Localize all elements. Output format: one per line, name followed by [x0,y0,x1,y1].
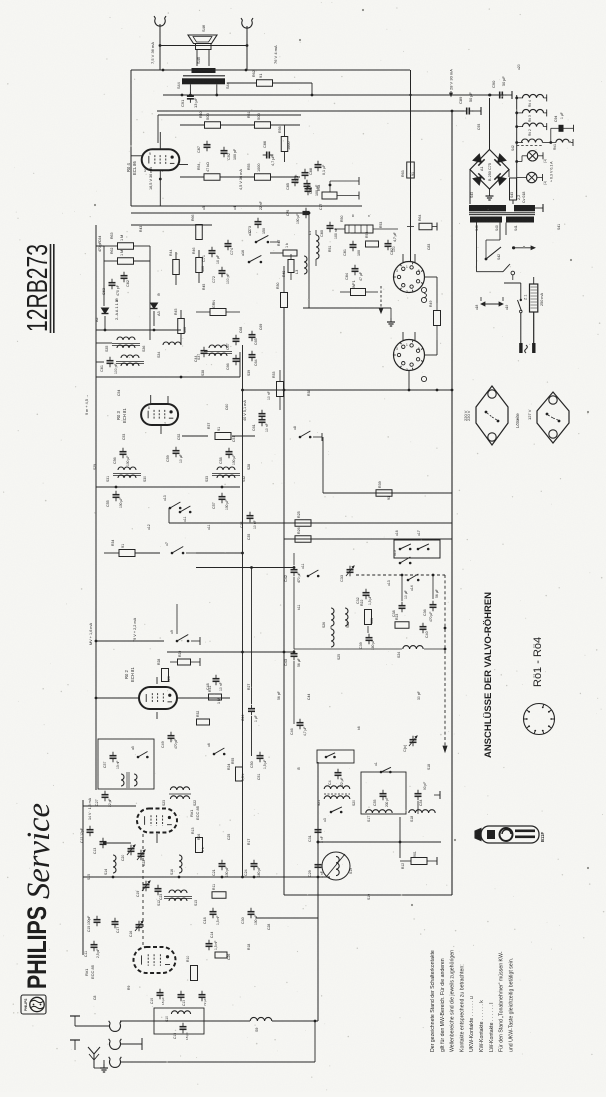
capacitor C34b 90pF [415,793,422,795]
coil S26 [331,608,334,626]
coil L3 [304,256,307,274]
capacitor C36 56uF [430,604,437,606]
dial lamp tube drawing [481,826,539,843]
wire v410 socket feed [410,70,412,262]
wire v284 [283,266,285,292]
osc box outline [451,578,453,895]
trimmer C33 [347,569,354,571]
coil S28 [345,608,348,626]
resistor R37 [182,435,208,437]
capacitor C83 100uF [304,183,311,185]
tape keys box [394,540,440,558]
resistor R26 [295,536,311,543]
coil L1 [316,235,319,259]
wire v318 [317,762,319,1021]
output transformer S44 [183,75,225,77]
resistor R25 [295,520,311,527]
resistor R40 [180,124,204,126]
resistor R66 [196,225,203,240]
wire v368 [367,626,369,633]
dots x445 [444,648,447,651]
capacitor C41 22uF [335,772,342,774]
wires ECH81#2 [95,553,97,790]
tube socket diagram Roe1-Roe4 [524,704,555,735]
resistor R29 [178,659,191,665]
capacitor C60b [259,413,266,415]
capacitor C86 4.7uF [266,152,268,159]
ground antenna [103,1064,105,1068]
capacitor C50 1.5uF [257,755,264,757]
resistor R55 [271,176,300,178]
switch u3 [330,811,333,814]
tube U1a ECC85 [137,809,177,833]
voltage selector lever [486,247,501,259]
bridge rectifier B250C75 [470,150,509,190]
wire y308 [303,307,391,309]
capacitor C15b 18pF [180,1026,187,1028]
tube U2 ECH81 [139,687,177,709]
coil S34v [331,629,334,647]
wire antenna top [120,1020,250,1022]
capacitor C43 56uF [291,653,298,655]
coil group S37 [209,345,227,348]
junction dot bus [488,94,491,97]
wire left rail x96 [95,225,97,553]
box WF1 [351,289,366,296]
resistor R5x [236,767,243,781]
resistor R62 [227,82,256,84]
FM box left rail [82,800,84,955]
antenna terminal 2 [109,1041,120,1049]
socket wires [424,276,437,278]
capacitor C94 1uF [551,127,559,129]
wire rail x150 [149,246,151,340]
IF transformer second [121,355,139,358]
resistor R50 block [345,225,373,233]
resistor R63 [407,162,415,178]
transformer S12 S13 [169,890,187,893]
capacitor C38 10uF [399,605,406,607]
dashed tuning line [356,574,445,576]
heater winding chain rail [516,95,518,198]
capacitor C23 [155,888,162,890]
capacitor C31 3nF [315,829,322,831]
capacitor C71 [209,250,216,252]
capacitor C82 [385,243,392,245]
wires IF left [96,245,104,247]
resistor R41 [271,124,300,126]
mains plug [519,343,522,353]
wire bus y95 [163,94,504,96]
capacitor C97 100uF [303,211,310,213]
coil S24 [403,646,423,649]
coil S10 [171,1011,190,1014]
diode A3 AA113 [151,303,158,309]
pilot lamp 1 [517,161,522,163]
trimmer C20 [128,848,135,850]
trimmer C22 [138,853,145,855]
resistor R43 [104,245,117,247]
wire y652 [167,651,294,653]
capacitor C56 100uF [120,451,127,453]
capacitor C15 100pF [94,919,101,921]
wire bus y109 [157,110,464,112]
capacitor C62 [121,275,128,277]
resistor R49 [434,311,441,326]
resistor R28 [162,669,169,682]
tube U1b ECC85 [134,947,176,973]
socket BU2 [394,340,425,371]
capacitor C12 12pF [87,829,94,831]
capacitor C59 10uF [173,450,180,452]
diode A2 AA113 [102,308,109,314]
capacitor C88 [315,164,322,166]
osc block box [361,772,406,814]
resistor R46 [196,258,203,273]
socket BU1 tail [421,287,426,292]
rail A x242.5 [242,345,244,877]
capacitor C32 [363,592,370,594]
wire v104 [103,246,105,306]
wire y523 bus [169,522,452,524]
capacitor C39 [366,637,373,639]
fuse Z1 250mA [530,284,538,312]
speaker LS [160,45,247,47]
wire y493 bus [323,492,452,494]
dipole stub 2 [70,1039,80,1041]
resistor R31 [209,694,222,700]
capacitor C91 13uF [187,95,194,97]
heater winding Roe3 [517,112,523,114]
switch u6 [213,753,216,756]
resistor R54 [180,176,204,178]
capacitor C57 100uF [219,496,226,498]
capacitor C11 2.5pF [91,944,98,946]
resistor R47 [270,252,283,254]
socket BU2 tail circle [421,376,426,381]
heater winding Roe4 [517,97,523,99]
capacitor C84 47uF [352,268,359,270]
primary winding S40 S41 [476,223,478,272]
caps row under ECC85 [157,992,164,994]
switch u15 [399,562,402,565]
capacitor C73 150 [255,221,262,223]
dashed arrow [380,286,382,310]
wire y246 stub [96,245,104,247]
trimmer Cx [410,739,417,741]
wire y539 bus [284,538,452,540]
wire y553 [196,552,243,554]
resistor R58 [322,192,337,199]
dipole stub 1 [70,1015,80,1017]
IF transformer S35 S36 [117,337,135,340]
capacitor C55 [113,494,120,496]
capacitor C80 100nF [327,225,334,227]
resistor R14 [215,952,227,958]
wire v240 [239,352,241,377]
power transformer core [469,205,506,211]
FM sub box [98,739,154,789]
resistor R34 and switch u7 [104,552,119,554]
resistor R13 [196,838,203,853]
coil S16 [179,855,182,873]
capacitor C29 1nF [315,864,322,866]
capacitor C74 [225,243,232,245]
rail B x251.5 [251,568,253,705]
heater winding S42 [517,142,523,144]
resistor R44 [173,260,180,275]
capacitor C58 100uF [226,451,233,453]
capacitor C63 470pF [109,282,116,284]
capacitor C46 [297,722,304,724]
wire y261 stub [134,260,150,262]
pilot lamp 2 [517,177,527,179]
capacitor C42a [107,360,114,362]
resistor R10 [191,966,198,981]
mains cord [520,313,522,343]
switch u14 [407,579,410,582]
capacitors column C67 C65 [233,338,240,340]
coil S22 S23 [170,787,189,790]
capacitor C24 160pF [251,863,258,865]
wire y877 [83,876,330,878]
wire top bus y70 [131,69,410,71]
end tick right [434,794,440,796]
wire y330 [96,329,181,331]
resistor 2.2 Cv018 [510,178,517,200]
capacitor C90 50uF [499,92,501,99]
wire y918 [256,917,318,919]
input box [154,1008,204,1034]
wire antenna bottom [120,1061,315,1063]
amp stage box lines [158,114,301,116]
resistor R48 [288,260,294,273]
capacitor C96 [305,188,312,190]
tube U3 ECH81 [141,404,178,425]
heater winding Roe2 [517,126,523,128]
selector plate 127V [537,392,569,443]
capacitor C42 470uF [291,569,298,571]
capacitor C34 10nF [247,515,254,517]
mains arrows [481,303,503,305]
resistor R21 [411,858,427,865]
switch u8 [299,436,302,439]
capacitor C37 10nF [110,755,117,757]
switch u1 [380,771,383,774]
switch u16a [248,261,251,264]
wire v323 [322,437,324,493]
trimmer C16 [136,924,143,926]
coils S21 S20 [324,786,350,789]
capacitor C89 50uF [466,108,468,115]
resistor R56 [281,137,288,152]
resistor R39 [376,490,392,497]
heater coil Roe1 [556,139,569,142]
switch u13 [169,507,172,510]
resistor R33v [277,382,284,397]
wire x294 lower [293,661,295,724]
switch u11a [179,511,182,514]
FM osc coil S19 [322,852,350,880]
capacitor C17 [112,921,119,923]
switch u12 [255,241,258,244]
wire band area [293,553,295,565]
bar S45 [192,68,216,73]
IF transformer S31 S30 [118,467,136,470]
coil S14 [113,855,116,873]
switch u2 box [317,750,354,763]
switch u5 [137,756,140,759]
antenna terminal 1 [109,1023,120,1031]
resistor R32 [197,719,210,725]
antenna terminal 3 [109,1059,120,1067]
trimmer C19 [143,884,150,886]
wire y842 [318,841,441,843]
capacitor C85 [292,179,299,181]
philips shield logo [21,995,46,1014]
tube envelope dashes [142,834,144,945]
switch u11b [307,575,310,578]
resistor R42b [104,260,117,262]
IF transformer S33 S32 [217,467,235,470]
capacitor C49 470pF [168,735,175,737]
capacitor C14 1.5nF [206,943,213,945]
switch u9 [176,640,179,643]
wire y843 [103,842,131,844]
capacitor C18 1.5nF [210,911,217,913]
wire v402 v433 [401,575,403,601]
ground g1 [390,318,392,322]
mains switch [520,283,522,300]
capacitor C81 100 [350,244,357,246]
resistor R01 [419,223,432,230]
capacitor C27 22pF [102,794,109,796]
wire y377 [96,376,240,378]
capacitor C44 1uF [248,708,255,710]
wire y487 [96,486,240,488]
capacitor C48 10nF [213,678,220,680]
speaker terminal right [242,20,252,28]
capacitor C72 100pF [219,270,226,272]
coil S18 [409,810,435,813]
wire y806 [83,805,136,807]
capacitor C61b 10nF [259,419,266,421]
wire v309 [308,213,310,308]
wire y213 [131,212,310,214]
resistor R30 [281,293,288,308]
capacitor C13 10pF [100,841,107,843]
capacitor C92 100pF [221,150,228,152]
socket BU1 [394,262,425,293]
capacitor C21 100pF [219,863,226,865]
wire v400 [399,817,401,858]
speaker terminal left [155,18,165,26]
capacitor C87 [204,144,211,146]
capacitor C95 [302,172,309,174]
selector plate 220V [476,386,508,445]
wire y390 bus [243,389,453,391]
capacitor C40 470uF [420,626,427,628]
coil S9 [250,1017,272,1021]
coil S17 [366,810,392,813]
title underline double [50,244,52,333]
box GRN [210,309,226,316]
capacitor C44 [201,350,208,352]
wire y225 [131,224,212,226]
resistor R23 [395,622,409,629]
capacitor C30 100pF [248,911,255,913]
tube U4 ECL86 [142,149,180,170]
wire left rail x131 [130,70,132,206]
bridge leads [489,189,491,192]
wire tube1 stub [156,834,158,843]
wire y567 [196,567,294,569]
wire right edge x452 [451,111,453,390]
resistor R11 [212,892,226,899]
coils S11 S12 [121,774,124,786]
resistor R52 [366,241,379,247]
antenna symbol [93,1054,95,1068]
capacitor C35 200pF [380,793,387,795]
wire antenna mid [120,1043,142,1045]
resistor R45 [178,319,185,334]
resistor R22 [365,610,372,625]
